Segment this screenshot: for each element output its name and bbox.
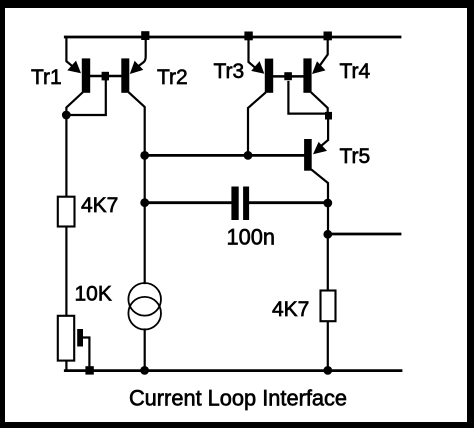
- wire Tr4 emitter lead: [316, 37, 328, 71]
- node resistor rail: [323, 366, 332, 375]
- wire Tr5 emitter lead: [318, 116, 329, 150]
- svg-text:100n: 100n: [227, 225, 276, 250]
- wire Tr5 to 4K7: [327, 234, 329, 291]
- wire Tr5 collector lead: [312, 170, 328, 234]
- wire current source to rail: [144, 330, 146, 371]
- wire wiper to rail: [83, 338, 89, 371]
- node Tr2 collector: [140, 151, 149, 160]
- svg-text:Tr4: Tr4: [340, 60, 371, 83]
- svg-text:10K: 10K: [75, 283, 112, 306]
- node output: [323, 230, 332, 239]
- resistor R1 4K7 left: [58, 197, 75, 227]
- wire cap right: [249, 201, 328, 204]
- transistor Tr5: [304, 139, 327, 171]
- transistor Tr3: [251, 59, 273, 93]
- wire left column upper: [65, 115, 67, 197]
- svg-text:Tr1: Tr1: [31, 66, 62, 89]
- transistor Tr1: [67, 58, 90, 92]
- node top rail Tr4: [324, 32, 332, 41]
- wire base drop to Tr4 collector: [288, 82, 324, 114]
- potentiometer 10K wiper: [77, 329, 83, 347]
- node Tr1 collector: [62, 111, 71, 120]
- wire output stub: [328, 233, 400, 236]
- wire base to collector drop: [66, 80, 105, 115]
- wire bottom rail: [65, 369, 401, 372]
- svg-text:Current Loop Interface: Current Loop Interface: [129, 386, 347, 411]
- svg-text:4K7: 4K7: [272, 298, 309, 321]
- node Tr3 collector: [244, 151, 253, 160]
- node cap left: [140, 198, 149, 207]
- svg-text:Tr3: Tr3: [214, 60, 245, 83]
- potentiometer 10K body: [58, 316, 74, 361]
- current source I1: [128, 283, 161, 330]
- wire Tr2 collector to current source: [144, 155, 146, 283]
- transistor Tr2: [121, 58, 143, 92]
- node top rail Tr2: [141, 31, 149, 40]
- node Tr1 base-collector junction: [102, 72, 109, 81]
- node current source rail: [140, 366, 149, 375]
- wire Tr1 emitter lead: [66, 37, 77, 70]
- wire cap left: [145, 201, 232, 204]
- wire Tr2 emitter lead: [133, 37, 146, 71]
- wire Tr3 emitter lead: [249, 37, 260, 71]
- node wiper rail: [85, 366, 93, 374]
- node top rail Tr3: [244, 32, 252, 41]
- node cap right: [323, 199, 332, 208]
- transistor Tr4: [303, 58, 325, 92]
- wire Tr3 Tr4 base link: [273, 75, 303, 78]
- wire 4K7 to rail right: [327, 321, 329, 370]
- wire Tr1 collector lead: [66, 93, 82, 118]
- wire Tr3 collector lead: [248, 93, 265, 155]
- node Tr4 collector junction: [325, 112, 332, 120]
- wire top supply rail: [65, 36, 400, 39]
- wire Tr5 base net: [145, 154, 305, 157]
- wire pot bottom: [65, 361, 67, 371]
- wire Tr1 Tr2 base link: [90, 75, 121, 78]
- resistor R2 4K7 right: [321, 291, 336, 322]
- wire Tr2 collector lead: [130, 93, 145, 155]
- capacitor C1 100n: [231, 187, 249, 221]
- svg-text:Tr5: Tr5: [340, 145, 371, 168]
- node Tr3 base junction: [284, 72, 292, 80]
- wire 4K7 to pot: [65, 227, 67, 316]
- svg-text:4K7: 4K7: [81, 194, 118, 217]
- wire Tr4 collector lead: [312, 93, 328, 116]
- svg-text:Tr2: Tr2: [157, 66, 188, 89]
